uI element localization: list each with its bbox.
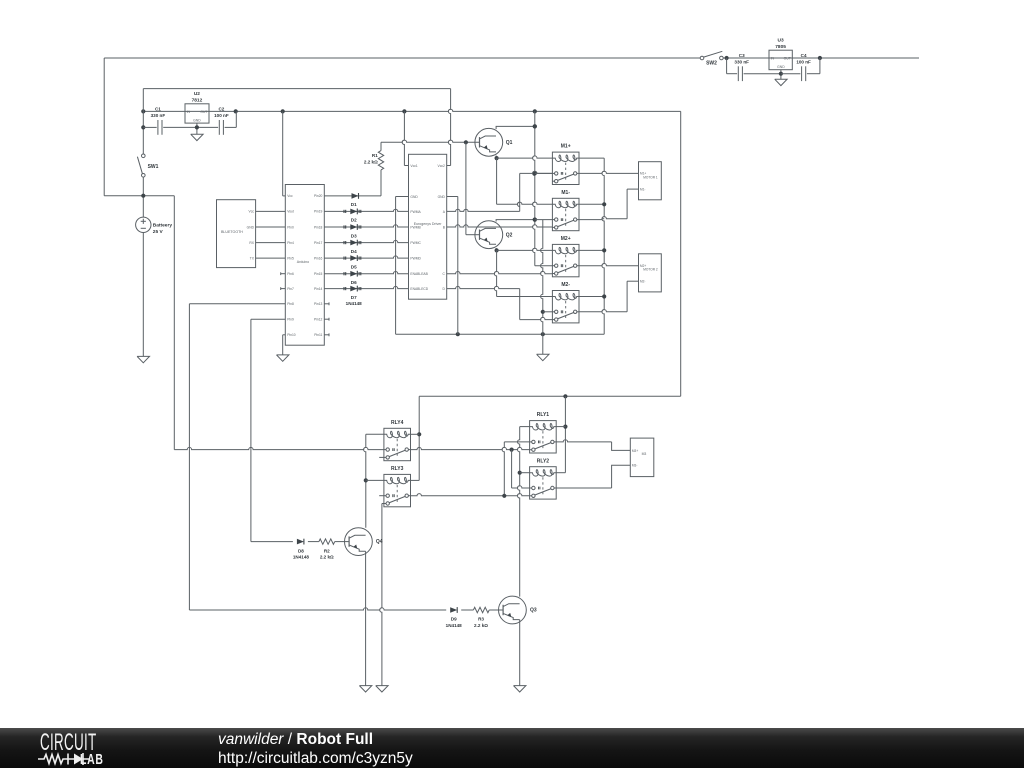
svg-text:D7: D7 [351, 295, 357, 300]
wire driver GND row [396, 332, 605, 336]
svg-text:7812: 7812 [192, 97, 203, 103]
svg-text:Vcc: Vcc [287, 194, 293, 198]
svg-text:PWMD: PWMD [410, 257, 421, 261]
voltage regulator U3 [769, 38, 792, 70]
relay RLY4 [384, 420, 411, 461]
wire D8 to R2 [308, 541, 319, 543]
svg-text:Pin20: Pin20 [314, 194, 323, 198]
diode D8 [293, 539, 310, 560]
svg-text:M3+: M3+ [632, 449, 638, 453]
wire 12V rail [141, 109, 681, 113]
motor MOTOR 1 [639, 162, 662, 200]
wire 25V row to Vcc2 [143, 88, 450, 90]
wire M1- upper contact from bus [535, 219, 553, 221]
svg-text:BLUETOOTH: BLUETOOTH [221, 230, 243, 234]
module BLUETOOTH [217, 200, 256, 268]
wire Pin9 to D8 [251, 541, 293, 543]
ground under Q4 [359, 686, 371, 692]
relay M1- [552, 190, 579, 231]
wire RLY3 right to RLY2 lower row [411, 494, 507, 498]
voltage regulator U2 [185, 91, 209, 123]
svg-text:C3: C3 [739, 53, 745, 58]
wire Q4 emitter to ground [365, 551, 367, 685]
svg-text:Pin11: Pin11 [314, 333, 322, 337]
svg-text:Pin5: Pin5 [287, 256, 294, 260]
transistor Q2 [475, 221, 513, 249]
relay RLY1 [530, 412, 557, 453]
wire battery positive top rail [104, 56, 919, 60]
transistor Q1 [475, 128, 513, 156]
ground under Q3 [514, 686, 526, 692]
svg-text:B: B [443, 225, 446, 229]
wire M1+ contact to motor1 [579, 171, 639, 173]
capacitor C3 [727, 53, 781, 81]
stub RLY3 upper contact [379, 495, 384, 497]
svg-text:ENABLEAB: ENABLEAB [410, 272, 428, 276]
wire driver C to M2+ contact [447, 272, 553, 274]
wire driver D to M2- contact [447, 286, 553, 319]
relay M2+ [552, 236, 579, 277]
capacitor C2 [214, 106, 229, 134]
svg-text:D3: D3 [351, 233, 357, 238]
svg-text:D1: D1 [351, 202, 357, 207]
svg-text:PWMA: PWMA [410, 210, 421, 214]
wire R2 to Q4 [335, 541, 349, 543]
svg-text:A: A [443, 210, 446, 214]
svg-text:D9: D9 [451, 617, 457, 622]
svg-text:OUT: OUT [784, 57, 791, 61]
svg-text:R2: R2 [324, 548, 330, 553]
svg-text:C2: C2 [218, 106, 224, 111]
wire Arduino Pin10 to ground [283, 335, 286, 355]
svg-text:GND: GND [193, 118, 201, 122]
wire driver right GND [447, 197, 458, 335]
svg-text:SW2: SW2 [706, 61, 717, 67]
relay M2- [552, 282, 579, 323]
svg-text:2.2 kΩ: 2.2 kΩ [474, 623, 488, 628]
svg-text:1N4148: 1N4148 [446, 623, 463, 628]
wire M2+ contact to motor2 [579, 264, 639, 266]
transistor Q3 [499, 596, 537, 624]
wire Arduino Vcc to rail [283, 111, 286, 195]
svg-text:100 nF: 100 nF [214, 113, 229, 118]
wire far-left vertical [103, 58, 105, 196]
wire Q1 emitter to M1- coil [497, 158, 553, 204]
wire SW1 to battery [142, 177, 144, 217]
wire Q3 emitter to ground [519, 620, 521, 686]
svg-text:Pin19: Pin19 [314, 210, 323, 214]
diode D6 [324, 271, 408, 285]
svg-text:330 nF: 330 nF [734, 60, 749, 65]
wire D9 to R3 [461, 609, 473, 611]
svg-text:2.2 kΩ: 2.2 kΩ [364, 159, 378, 164]
wire battery row [104, 194, 174, 198]
svg-text:RLY1: RLY1 [537, 412, 550, 418]
wire Q4 collector to RLY coils [364, 434, 384, 527]
svg-text:Pin16: Pin16 [314, 256, 323, 260]
svg-text:Pin4: Pin4 [287, 241, 294, 245]
wire Vcc2 from 25V row [447, 89, 451, 166]
wire battery to relay contacts [174, 447, 529, 451]
svg-text:SW1: SW1 [148, 164, 159, 170]
footer bar [0, 728, 1024, 768]
capacitor C4 [781, 53, 820, 81]
svg-text:Pin10: Pin10 [287, 333, 296, 337]
svg-text:D: D [443, 287, 446, 291]
wire Q2 emitter to M2- coil [494, 250, 552, 296]
wire driver A to M1+ contact [447, 171, 553, 211]
svg-text:Pin13: Pin13 [314, 302, 323, 306]
svg-text:330 nF: 330 nF [151, 113, 166, 118]
svg-text:Pin18: Pin18 [314, 225, 323, 229]
wire M1- contact to motor1 [579, 189, 639, 220]
svg-text:Vcc: Vcc [249, 210, 255, 214]
ground under battery [137, 233, 149, 363]
logo resistor-diode glyph [38, 753, 74, 764]
svg-text:Pin17: Pin17 [314, 241, 323, 245]
svg-text:TX: TX [250, 256, 255, 260]
svg-text:Q3: Q3 [530, 608, 537, 614]
svg-text:100 nF: 100 nF [796, 60, 811, 65]
switch SW1 [137, 154, 158, 177]
svg-text:RX: RX [249, 241, 254, 245]
wire Q2 emitter to M2+ coil [495, 248, 553, 253]
svg-text:Pin0: Pin0 [287, 225, 294, 229]
wire Q1 Q2 base link [466, 142, 480, 234]
wire aux vertical to ground [541, 220, 545, 335]
diode D5 [324, 255, 408, 269]
svg-text:C1: C1 [155, 106, 161, 111]
wire Pin8 to D9 [189, 608, 446, 610]
motor MOTOR 2 [639, 254, 662, 292]
svg-text:U2: U2 [194, 91, 200, 97]
svg-text:GND: GND [410, 195, 418, 199]
svg-text:Q2: Q2 [506, 232, 513, 238]
footer url text [218, 750, 413, 768]
svg-text:D5: D5 [351, 264, 357, 269]
svg-text:Batteery: Batteery [153, 222, 173, 228]
wires BLUETOOTH to Arduino [256, 211, 286, 258]
svg-text:Pin7: Pin7 [287, 287, 294, 291]
svg-text:M1-: M1- [640, 187, 646, 191]
svg-text:IN: IN [187, 110, 191, 114]
svg-text:Q4: Q4 [376, 539, 383, 545]
svg-text:M3: M3 [642, 452, 647, 456]
wire driver left GND bus [396, 197, 409, 335]
svg-text:Q1: Q1 [506, 140, 513, 146]
svg-text:M2+: M2+ [561, 236, 571, 242]
stub RLY4 lower contact [379, 456, 384, 458]
relay M1+ [552, 144, 579, 185]
wire Vcc1 from rail [402, 111, 408, 165]
wire M2- upper contact [543, 311, 553, 313]
switch SW2 [700, 51, 723, 66]
svg-text:Arduino: Arduino [297, 260, 309, 264]
motor M3 [630, 438, 654, 477]
svg-text:2.2 kΩ: 2.2 kΩ [320, 555, 334, 560]
CircuitLab logo [40, 729, 79, 757]
svg-text:C: C [443, 272, 446, 276]
svg-text:1N4148: 1N4148 [293, 555, 310, 560]
wire RLY1 right to M3+ [556, 440, 630, 451]
svg-text:Pin12: Pin12 [314, 318, 323, 322]
svg-text:C4: C4 [801, 53, 807, 58]
stub Arduino Pin6 [281, 272, 286, 275]
svg-text:D2: D2 [351, 218, 357, 223]
svg-text:M1+: M1+ [561, 144, 571, 150]
wire Q3 collector to RLY coils [518, 427, 530, 597]
wire Q1 emitter to M1+ coil [495, 156, 553, 161]
svg-text:GND: GND [438, 195, 446, 199]
wire relay power row [419, 394, 681, 398]
svg-text:MOTOR 1: MOTOR 1 [643, 175, 658, 179]
svg-text:Eurogenys Driver: Eurogenys Driver [414, 222, 443, 226]
svg-text:M2-: M2- [640, 280, 646, 284]
wire Q2 collector [496, 220, 535, 222]
stub Arduino Pin7 [281, 287, 286, 290]
svg-text:Vout: Vout [287, 210, 294, 214]
svg-text:PWMC: PWMC [410, 241, 421, 245]
svg-text:GND: GND [777, 65, 785, 69]
svg-text:Pin9: Pin9 [287, 318, 294, 322]
wire M1+ upper contact from bus [535, 172, 553, 174]
svg-text:GND: GND [247, 225, 255, 229]
ground under U2 [191, 123, 203, 141]
wire coil-right bus [579, 158, 606, 334]
capacitor C1 [151, 106, 166, 134]
wire RLY3 lower contact to ground [380, 504, 384, 686]
svg-text:M2-: M2- [561, 282, 570, 288]
svg-text:7805: 7805 [775, 44, 786, 50]
svg-text:D6: D6 [351, 280, 357, 285]
svg-text:MOTOR 2: MOTOR 2 [643, 268, 658, 272]
svg-text:Vcc1: Vcc1 [410, 164, 417, 168]
svg-text:Pin6: Pin6 [287, 272, 294, 276]
wire Arduino Pin8 down [189, 304, 285, 610]
relay RLY3 [384, 466, 411, 507]
diode D3 [324, 224, 408, 238]
diode D9 [446, 607, 463, 628]
svg-text:R3: R3 [478, 617, 484, 622]
stub Arduino Pin13 [324, 302, 329, 305]
stub Arduino Pin11 [324, 333, 329, 336]
svg-text:Pin14: Pin14 [314, 287, 323, 291]
resistor R3 [473, 607, 489, 628]
ground under driver [537, 334, 549, 361]
wire Q1 collector [496, 124, 537, 129]
svg-text:R1: R1 [372, 153, 378, 158]
ground under U3 [775, 70, 787, 86]
svg-text:25 V: 25 V [153, 229, 164, 235]
svg-text:ENABLECD: ENABLECD [410, 287, 428, 291]
wire battery row down [173, 196, 175, 450]
svg-text:RLY3: RLY3 [391, 466, 404, 472]
wire RLY12 coil-right vertical [556, 396, 567, 472]
svg-text:U3: U3 [778, 38, 784, 44]
wire Arduino Pin9 down [251, 319, 285, 541]
svg-text:Vcc2: Vcc2 [438, 164, 445, 168]
resistor R2 [319, 539, 335, 560]
svg-text:OUT: OUT [200, 110, 207, 114]
wire R3 to Q3 [489, 609, 503, 611]
svg-text:D4: D4 [351, 249, 357, 254]
wire RLY34 coil-right vertical [411, 396, 422, 480]
diode D1 [324, 170, 381, 207]
wire driver B to M1- contact [447, 225, 553, 227]
stub Arduino Pin12 [324, 318, 329, 321]
svg-text:RLY4: RLY4 [391, 420, 404, 426]
svg-text:M1-: M1- [561, 190, 570, 196]
relay RLY2 [530, 458, 557, 499]
wire RLY1 upper to RLY2 lower [502, 442, 529, 496]
wire RLY2 right to M3- [556, 465, 630, 488]
wire right vertical from rail [680, 111, 682, 396]
resistor R1 [364, 151, 384, 170]
module Arduino [285, 185, 324, 346]
svg-text:RLY2: RLY2 [537, 458, 550, 464]
svg-text:Pin8: Pin8 [287, 302, 294, 306]
wire M2- contact to motor2 [579, 281, 639, 312]
svg-text:Pin15: Pin15 [314, 272, 323, 276]
ground under Arduino [277, 355, 289, 361]
svg-text:M3-: M3- [632, 464, 638, 468]
svg-text:1N4148: 1N4148 [346, 301, 363, 306]
svg-text:D8: D8 [298, 548, 304, 553]
transistor Q4 [345, 528, 383, 556]
ground under RLY3 [376, 686, 388, 692]
battery V1 25V [136, 217, 173, 235]
wire battery branch to RLY2 upper [512, 450, 530, 488]
driver IC U1 Eurogenys [409, 154, 447, 299]
diode D7 [324, 286, 408, 307]
svg-text:IN: IN [771, 57, 775, 61]
wire Q1 base row [381, 140, 480, 151]
wire U2 bypass row [141, 89, 236, 154]
wire collector bus [533, 111, 553, 265]
diode D2 [324, 209, 408, 223]
footer title text [218, 731, 373, 749]
diode D4 [324, 240, 408, 254]
